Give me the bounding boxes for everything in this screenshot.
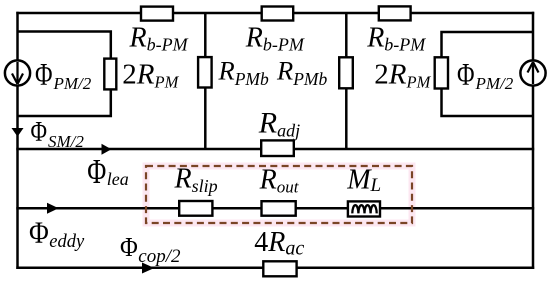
resistor R_out [262,201,296,216]
wire mid vertical 1 [204,13,207,149]
dashed red box [146,166,412,223]
resistor Rb-PM 3 [379,6,411,20]
wire left outer [16,12,19,269]
wire right inner loop [442,32,534,116]
wire left inner loop [18,32,111,117]
resistor 2R_PM left [104,59,116,90]
arrow right on rail 2 (Phi_eddy) [47,203,59,214]
resistor R_PMb 1 [198,57,212,87]
arrow right on bottom rail (Phi_cop/2) [142,263,154,274]
wire bottom rail [16,267,534,270]
source Phi_PM/2 right [520,60,545,85]
resistor 4R_ac [263,261,296,276]
resistor 2R_PM right [435,57,448,88]
resistor R_adj [261,140,294,156]
wire top rail [16,12,534,15]
resistor Rb-PM 2 [262,7,294,21]
resistor R_PMb 2 [339,57,353,88]
resistor Rb-PM 1 [141,7,173,21]
wire rail 2 [16,207,534,210]
arrow down on left wire (Phi_SM/2) [12,128,24,137]
wire mid vertical 2 [345,13,348,149]
wire right outer [532,12,535,269]
arrow right on rail 1 (Phi_lea) [102,144,112,155]
resistor R_slip [179,201,212,216]
inductor M_L [348,201,380,216]
wire rail 1 [16,148,534,151]
source Phi_PM/2 left [5,60,30,85]
dashed highlight box halo [146,166,412,223]
